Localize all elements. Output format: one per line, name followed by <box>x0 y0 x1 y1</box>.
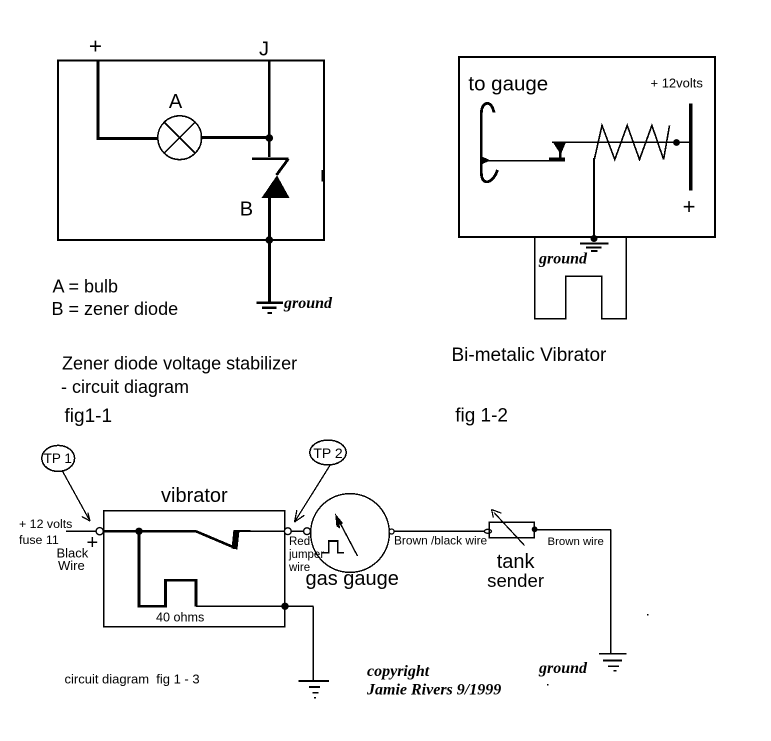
svg-text:Brown /black wire: Brown /black wire <box>394 533 488 547</box>
svg-text:fig1-1: fig1-1 <box>65 406 113 427</box>
svg-text:40 ohms: 40 ohms <box>156 611 204 625</box>
svg-text:fuse 11: fuse 11 <box>19 533 59 547</box>
svg-text:fig 1-2: fig 1-2 <box>455 406 508 427</box>
svg-text:circuit diagram fig 1 - 3: circuit diagram fig 1 - 3 <box>65 672 200 687</box>
svg-text:J: J <box>259 39 269 61</box>
svg-text:- circuit diagram: - circuit diagram <box>61 377 189 397</box>
svg-text:ground: ground <box>538 251 588 268</box>
svg-text:jumper: jumper <box>288 549 324 561</box>
svg-text:ground: ground <box>283 295 333 312</box>
svg-text:copyright: copyright <box>367 663 430 680</box>
svg-text:+: + <box>89 34 102 59</box>
svg-text:B: B <box>240 198 253 220</box>
svg-text:TP 1: TP 1 <box>44 451 72 466</box>
svg-text:+ 12volts: + 12volts <box>651 76 704 91</box>
svg-text:gas gauge: gas gauge <box>306 568 399 590</box>
svg-text:Bi-metalic Vibrator: Bi-metalic Vibrator <box>452 345 608 366</box>
svg-text:B = zener diode: B = zener diode <box>52 299 179 319</box>
svg-text:Brown wire: Brown wire <box>548 536 604 548</box>
svg-text:+ 12 volts: + 12 volts <box>19 517 72 531</box>
svg-text:Zener diode voltage stabilizer: Zener diode voltage stabilizer <box>62 353 297 373</box>
svg-text:TP 2: TP 2 <box>313 445 343 461</box>
svg-text:ground: ground <box>538 660 588 677</box>
svg-text:to gauge: to gauge <box>468 73 548 96</box>
svg-text:Jamie Rivers 9/1999: Jamie Rivers 9/1999 <box>366 682 501 699</box>
svg-text:A = bulb: A = bulb <box>53 277 119 297</box>
svg-text:+: + <box>683 194 696 219</box>
svg-text:A: A <box>169 91 183 113</box>
svg-text:Wire: Wire <box>58 558 85 573</box>
svg-text:vibrator: vibrator <box>161 485 228 507</box>
svg-text:sender: sender <box>487 570 544 591</box>
svg-text:Red: Red <box>289 536 310 548</box>
